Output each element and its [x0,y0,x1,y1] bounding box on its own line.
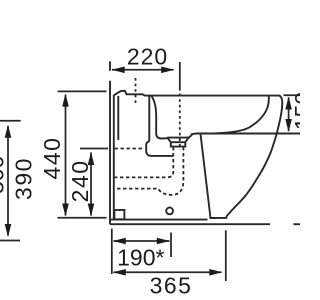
dim 190 line [114,240,170,242]
wall line [109,81,111,224]
arrowhead 440 up [62,94,69,107]
trap inner: left pipe wall + inner elbow + top outlet line [115,147,174,177]
svg-text:190*: 190* [117,244,164,270]
bowl bottom rise to ledge [189,134,193,138]
wall line upper extension segment [109,61,111,71]
arrowhead 365 left [113,269,126,276]
outlet centerline dashed [179,88,181,150]
bowl inner back surface [151,96,167,139]
arrowhead 440 down [62,204,69,217]
arrowhead 390 up [5,125,12,138]
outlet flange [167,138,189,147]
dim 440/240 bottom tick [58,217,107,219]
arrowhead 190 right [157,238,170,245]
pan front outer profile [201,134,277,218]
arrowhead 365 right [209,269,222,276]
arrowhead 190 left [113,238,126,245]
dim 240 line [90,153,92,216]
dim 365 right extension [225,230,227,281]
floor lower line right dash [294,223,301,225]
floor upper line [111,219,208,221]
inlet duct dashed [115,148,145,150]
svg-text:390: 390 [11,157,37,200]
pan back panel right edge [117,96,119,140]
svg-text:220: 220 [127,44,168,70]
floor lower line [110,223,270,225]
fixing square [114,210,124,219]
dim 220 line [112,69,174,71]
arrowhead 390 down [5,224,12,237]
fixing hole circle [166,208,173,215]
arrowhead 150 down [285,119,292,132]
arrowhead 220 left [112,67,125,74]
svg-text:300: 300 [0,156,9,194]
dim 190/365 left extension [111,229,113,275]
dim 390 bottom tick [0,240,20,242]
outlet flange box top [171,141,186,143]
arrowhead 150 up [285,97,292,110]
arrowhead 240 up [88,152,95,165]
dim 390 top tick [0,120,21,122]
dim 440 top tick [58,90,107,92]
dim 150 line [288,98,290,132]
bowl inner back wall outer line [146,96,173,156]
trap outer: right pipe wall + water-seal dip + bottom outlet line [115,147,184,195]
dim 390 line [7,126,9,236]
dim 440 line [65,95,67,216]
svg-text:150: 150 [290,92,300,130]
bowl inner front sweep [214,96,269,134]
dim 365 line [114,271,222,273]
dim 150 top extension [284,94,301,96]
arrowhead 240 down [88,204,95,217]
pan top profile with rear lip and rim [114,91,282,134]
pan back panel left edge [113,95,115,219]
svg-text:240: 240 [67,159,93,202]
dim 220 right extension [179,62,181,88]
arrowhead 220 right [161,67,174,74]
dim 240 top tick [80,148,108,150]
shelf ledge line [191,133,300,136]
dim 190 right extension [170,233,172,258]
inlet centerline dashed [135,78,137,106]
svg-text:440: 440 [39,137,65,180]
svg-text:365: 365 [150,272,193,298]
